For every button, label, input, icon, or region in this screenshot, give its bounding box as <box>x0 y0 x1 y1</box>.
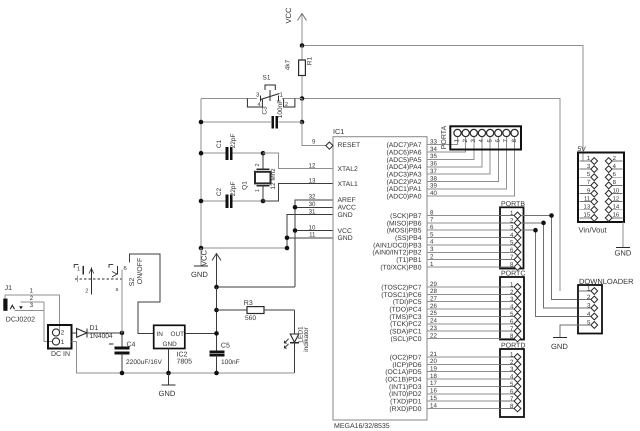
crystal Q1 12 MHz <box>255 153 271 201</box>
node VCC/pin10 junction <box>214 285 219 290</box>
svg-text:S1: S1 <box>263 75 271 82</box>
svg-text:8: 8 <box>510 403 514 410</box>
svg-text:8: 8 <box>510 333 514 340</box>
wire downloader pin5 to GND <box>560 325 591 337</box>
svg-text:GND: GND <box>338 235 353 242</box>
svg-text:3: 3 <box>510 366 514 373</box>
node C5 ground <box>214 371 219 376</box>
svg-text:s: s <box>116 287 119 293</box>
svg-text:(ADC4)PA4: (ADC4)PA4 <box>387 164 422 171</box>
svg-text:(TDI)PC5: (TDI)PC5 <box>393 299 422 306</box>
svg-text:1: 1 <box>454 139 461 143</box>
ground symbol GND (5V header) <box>615 248 632 258</box>
connector PORTC <box>500 277 525 342</box>
svg-text:4: 4 <box>510 232 514 239</box>
svg-text:J1: J1 <box>5 285 13 292</box>
svg-text:XTAL2: XTAL2 <box>338 166 358 173</box>
svg-text:7: 7 <box>510 396 514 403</box>
svg-text:13: 13 <box>584 204 591 211</box>
svg-text:GND: GND <box>338 212 353 219</box>
svg-text:(ADC3)PA3: (ADC3)PA3 <box>387 172 422 179</box>
wire VCC rail down <box>216 287 218 352</box>
wire ground rail bottom <box>77 342 295 374</box>
svg-text:4: 4 <box>510 304 514 311</box>
svg-text:IN: IN <box>157 331 164 338</box>
svg-text:(ICP)PD6: (ICP)PD6 <box>392 362 421 369</box>
wire GND pin 11 <box>287 237 333 239</box>
node C2 junction <box>199 199 204 204</box>
svg-text:VCC: VCC <box>338 228 352 235</box>
svg-text:(TOSC1)PC6: (TOSC1)PC6 <box>381 292 422 299</box>
svg-text:(TDO)PC4: (TDO)PC4 <box>389 306 421 313</box>
IC1 left pin names <box>338 142 361 242</box>
wire to RESET pin 9 <box>302 122 326 146</box>
svg-text:10: 10 <box>309 224 316 231</box>
svg-text:1N4004: 1N4004 <box>90 333 113 340</box>
svg-text:(TCK)PC2: (TCK)PC2 <box>390 321 422 328</box>
node VCC junction <box>300 43 305 48</box>
wire GND pin 31 <box>287 215 333 248</box>
svg-text:indikator: indikator <box>303 326 310 351</box>
svg-text:22pF: 22pF <box>230 134 237 149</box>
ground symbol GND (regulator) <box>159 373 176 398</box>
svg-text:C4: C4 <box>127 342 136 349</box>
svg-text:6: 6 <box>494 139 501 143</box>
connector DC IN <box>48 325 72 349</box>
svg-text:1: 1 <box>587 286 591 293</box>
svg-text:IC1: IC1 <box>333 127 344 136</box>
svg-text:(OC1A)PD5: (OC1A)PD5 <box>385 369 421 376</box>
svg-text:VCC: VCC <box>284 7 293 24</box>
svg-text:22pF: 22pF <box>230 182 237 197</box>
pin numbers PORTC 1-8 <box>510 282 514 340</box>
IC1 right pin names PA <box>387 142 422 200</box>
IC1 right pin names PB <box>372 213 421 271</box>
wire MISO to downloader pin3 <box>521 223 591 308</box>
capacitor C1 <box>201 147 263 160</box>
svg-text:30: 30 <box>309 201 316 208</box>
svg-text:7805: 7805 <box>177 359 193 366</box>
svg-text:2200uF/16V: 2200uF/16V <box>126 359 163 366</box>
svg-text:(ADC7)PA7: (ADC7)PA7 <box>387 142 422 149</box>
wire S2 to IC2 IN <box>130 254 161 333</box>
wire MOSI to downloader pin4 <box>521 230 591 316</box>
IC1 left pin numbers <box>309 138 316 238</box>
svg-text:(AIN0/INT2)PB2: (AIN0/INT2)PB2 <box>372 250 421 257</box>
svg-text:(INT1)PD3: (INT1)PD3 <box>389 384 422 391</box>
svg-text:(ADC2)PA2: (ADC2)PA2 <box>387 179 422 186</box>
svg-text:4: 4 <box>510 374 514 381</box>
wire IC2 OUT to VCC node <box>185 332 217 334</box>
svg-text:14: 14 <box>613 204 620 211</box>
svg-text:6: 6 <box>510 318 514 325</box>
wire IC2 GND to rail <box>168 349 170 374</box>
svg-text:(OC1B)PD4: (OC1B)PD4 <box>385 376 421 383</box>
svg-text:D1: D1 <box>90 325 99 332</box>
svg-text:2: 2 <box>255 163 261 166</box>
node R3 junction <box>214 308 219 313</box>
node C3 junction <box>300 120 305 125</box>
svg-text:C2: C2 <box>216 187 223 196</box>
svg-text:16: 16 <box>613 212 620 219</box>
svg-text:5: 5 <box>510 311 514 318</box>
svg-text:5: 5 <box>510 381 514 388</box>
svg-text:100nF: 100nF <box>277 100 284 118</box>
wire 5V header to GND <box>622 222 624 247</box>
svg-text:GND: GND <box>191 270 208 279</box>
svg-text:R3: R3 <box>244 300 253 307</box>
voltage regulator IC2 7805 <box>154 325 185 348</box>
svg-text:(ADC0)PA0: (ADC0)PA0 <box>387 194 422 201</box>
IC1 right pin numbers PC <box>430 281 437 339</box>
svg-text:(MISO)PB6: (MISO)PB6 <box>387 220 422 227</box>
svg-text:6: 6 <box>510 247 514 254</box>
svg-text:ON/OFF: ON/OFF <box>136 258 144 284</box>
svg-text:1: 1 <box>255 189 261 192</box>
svg-text:11: 11 <box>584 195 591 202</box>
svg-text:(SCK)PB7: (SCK)PB7 <box>390 213 422 220</box>
svg-text:4k7: 4k7 <box>285 59 292 70</box>
wire DCIN pin1 out <box>72 341 77 343</box>
svg-text:1: 1 <box>510 282 514 289</box>
svg-text:R1: R1 <box>307 56 314 65</box>
svg-text:15: 15 <box>584 212 591 219</box>
wire reset node down <box>301 99 303 123</box>
resistor R1 <box>299 46 306 99</box>
capacitor C5 100nF <box>210 352 225 373</box>
svg-text:32: 32 <box>309 194 316 201</box>
svg-text:PORTD: PORTD <box>501 343 525 350</box>
IC1 right pin numbers PB <box>430 209 434 267</box>
wire AVCC pin 30 <box>295 206 333 208</box>
svg-text:560: 560 <box>245 315 256 322</box>
svg-text:3: 3 <box>510 296 514 303</box>
IC1 right pin names PC <box>381 284 422 342</box>
RESET pin diamond <box>326 142 333 149</box>
IC1 right pin numbers PD <box>430 351 437 409</box>
svg-text:2: 2 <box>510 289 514 296</box>
capacitor C4 2200uF/16V <box>115 333 130 373</box>
wire S2 pole to D1 node <box>121 270 123 333</box>
node D1/C4/S2 junction <box>120 331 125 336</box>
connector PORTA <box>450 126 521 149</box>
op-amp U1: IC1 MEGA16/32/8535 box <box>333 137 427 420</box>
wire left rail (S1/C3 to GND) <box>200 99 202 249</box>
wire GND rail to ground symbol <box>201 247 287 249</box>
wire reset line to downloader pin1 <box>302 99 560 292</box>
svg-text:3: 3 <box>30 302 34 309</box>
wire J1 pin1 to DCIN pin2 <box>4 295 6 299</box>
svg-text:4: 4 <box>258 102 261 108</box>
svg-text:2: 2 <box>462 139 469 143</box>
svg-text:4: 4 <box>587 311 591 318</box>
svg-text:1: 1 <box>61 339 65 346</box>
svg-text:DCJ0202: DCJ0202 <box>6 317 35 324</box>
connector PORTD <box>500 349 525 417</box>
svg-text:DC IN: DC IN <box>51 351 70 358</box>
svg-text:(RXD)PD0: (RXD)PD0 <box>389 406 421 413</box>
node IC2 OUT junction <box>214 331 219 336</box>
svg-text:7: 7 <box>510 254 514 261</box>
pin numbers PORTA 1-8 <box>454 139 518 143</box>
svg-text:5: 5 <box>486 139 493 143</box>
connector J1 DC jack <box>3 299 22 311</box>
svg-text:PORTC: PORTC <box>501 271 525 278</box>
svg-text:(SS)PB4: (SS)PB4 <box>395 235 422 242</box>
pin numbers 5V header even <box>613 155 620 219</box>
wires PORTA staircase (pins 33-40) <box>427 137 515 197</box>
svg-text:2: 2 <box>85 288 88 295</box>
IC1 right pin numbers PA <box>430 139 437 197</box>
svg-text:AREF: AREF <box>338 197 356 204</box>
svg-text:12: 12 <box>613 195 620 202</box>
svg-text:(OC2)PD7: (OC2)PD7 <box>390 354 422 361</box>
svg-text:10: 10 <box>613 187 620 194</box>
svg-text:(SCL)PC0: (SCL)PC0 <box>391 336 422 343</box>
svg-text:GND: GND <box>615 249 632 258</box>
svg-text:Vin/Vout: Vin/Vout <box>579 225 608 234</box>
svg-text:(INT0)PD2: (INT0)PD2 <box>389 391 422 398</box>
svg-text:C3: C3 <box>262 106 269 115</box>
svg-text:7: 7 <box>503 139 510 143</box>
IC1 right pin names PD <box>385 354 421 412</box>
svg-text:13: 13 <box>309 177 316 184</box>
svg-text:1: 1 <box>30 288 34 295</box>
svg-text:1: 1 <box>77 267 80 273</box>
capacitor C2 <box>201 195 263 208</box>
label C4 polarity <box>109 343 114 345</box>
svg-text:PORTB: PORTB <box>501 201 525 208</box>
svg-text:12: 12 <box>309 162 316 169</box>
pin numbers PORTB 1-8 <box>510 210 514 268</box>
svg-text:3: 3 <box>510 225 514 232</box>
connector DOWNLOADER <box>578 285 602 334</box>
node IC2 ground <box>166 371 171 376</box>
switch S2 ON/OFF <box>74 265 122 295</box>
svg-text:4: 4 <box>478 139 485 143</box>
svg-text:PORTA: PORTA <box>441 125 448 149</box>
svg-text:(ADC5)PA5: (ADC5)PA5 <box>387 157 422 164</box>
wire AREF pin 32 <box>295 200 333 287</box>
svg-text:2: 2 <box>285 102 288 108</box>
node C1 junction <box>199 151 204 156</box>
pin numbers 5V header odd <box>584 155 591 219</box>
svg-text:VCC: VCC <box>200 249 209 266</box>
svg-text:5: 5 <box>510 239 514 246</box>
svg-text:31: 31 <box>309 209 316 216</box>
wires PORTD (pins 21-14) <box>427 357 514 408</box>
svg-text:1: 1 <box>510 210 514 217</box>
svg-text:3: 3 <box>470 139 477 143</box>
svg-text:OUT: OUT <box>171 331 185 338</box>
svg-text:2: 2 <box>587 294 591 301</box>
svg-text:6: 6 <box>124 265 127 272</box>
power symbol VCC top <box>284 7 307 46</box>
svg-text:3: 3 <box>587 303 591 310</box>
wires PORTB (pins 8-1) <box>427 216 514 267</box>
svg-text:9: 9 <box>312 138 316 145</box>
pin numbers PORTD 1-8 <box>510 352 514 410</box>
svg-text:IC2: IC2 <box>177 352 188 359</box>
svg-text:2: 2 <box>510 359 514 366</box>
wire SCK to downloader pin2 <box>521 216 591 300</box>
svg-text:C5: C5 <box>221 343 230 350</box>
svg-text:(MOSI)PB5: (MOSI)PB5 <box>387 228 422 235</box>
switch S1 (reset button) <box>201 85 302 107</box>
svg-text:Q1: Q1 <box>242 181 249 190</box>
pin numbers DOWNLOADER 1-5 <box>587 286 591 327</box>
svg-text:(SDA)PC1: (SDA)PC1 <box>390 329 422 336</box>
svg-text:S2: S2 <box>129 278 136 287</box>
svg-text:XTAL1: XTAL1 <box>338 181 358 188</box>
svg-text:(TOSC2)PC7: (TOSC2)PC7 <box>381 284 422 291</box>
svg-text:(ADC1)PA1: (ADC1)PA1 <box>387 186 422 193</box>
wire XTAL1 pin 13 <box>263 184 333 202</box>
svg-text:8: 8 <box>511 139 518 143</box>
resistor R3 <box>217 307 295 314</box>
connector PORTB <box>500 207 524 270</box>
node reset junction <box>300 96 305 101</box>
wires PORTC (pins 29-22) <box>427 287 514 338</box>
svg-text:(AIN1/OC0)PB3: (AIN1/OC0)PB3 <box>373 242 422 249</box>
svg-text:11: 11 <box>309 232 316 239</box>
diode D1 1N4004 <box>72 329 122 338</box>
capacitor C3 <box>201 116 302 129</box>
svg-text:(T1)PB1: (T1)PB1 <box>396 257 422 264</box>
svg-text:GND: GND <box>159 389 176 398</box>
svg-text:1: 1 <box>510 352 514 359</box>
wire J1 pin2/3 to DCIN pin1 <box>15 302 53 342</box>
svg-text:5V: 5V <box>578 146 587 153</box>
wire XTAL2 pin 12 <box>263 153 333 168</box>
svg-text:6: 6 <box>510 388 514 395</box>
node C4 ground <box>120 371 125 376</box>
svg-text:8: 8 <box>510 261 514 268</box>
svg-text:AVCC: AVCC <box>338 205 356 212</box>
LED LED1 indikator <box>284 310 298 373</box>
svg-text:100nF: 100nF <box>221 359 240 366</box>
svg-text:C1: C1 <box>216 139 223 148</box>
svg-text:(TMS)PC3: (TMS)PC3 <box>389 314 421 321</box>
svg-text:RESET: RESET <box>338 142 361 149</box>
svg-text:(ADC6)PA6: (ADC6)PA6 <box>387 149 422 156</box>
svg-text:MEGA16/32/8535: MEGA16/32/8535 <box>334 422 390 430</box>
wire VCC pin 10 <box>295 230 333 232</box>
wire VCC rail to 5V header <box>302 46 583 162</box>
svg-text:GND: GND <box>551 342 568 351</box>
wire VCC feed (regulator to IC) <box>217 286 296 288</box>
svg-text:2: 2 <box>510 217 514 224</box>
svg-text:12 Mhz: 12 Mhz <box>270 168 277 189</box>
ground symbol GND (reset/xtal) <box>191 248 208 279</box>
svg-text:(T0/XCK)PB0: (T0/XCK)PB0 <box>380 264 421 271</box>
svg-text:GND: GND <box>163 341 178 348</box>
connector 5V power header <box>578 153 624 223</box>
svg-text:(TXD)PD1: (TXD)PD1 <box>390 399 422 406</box>
svg-text:2: 2 <box>61 330 65 337</box>
power symbol VCC (regulator output) <box>200 249 222 287</box>
svg-text:7: 7 <box>510 326 514 333</box>
ground symbol GND (downloader) <box>551 338 568 352</box>
svg-text:2: 2 <box>30 295 34 302</box>
